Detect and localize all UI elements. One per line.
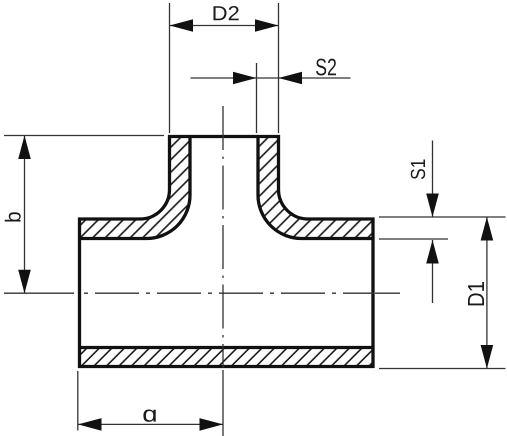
dimension S2 label <box>316 59 336 76</box>
outline: right pipe end face <box>371 218 374 369</box>
dimension S2 arrow left <box>233 72 257 85</box>
dimension D2 line <box>170 25 279 27</box>
dimension b arrow top <box>18 136 31 160</box>
dimension D2 label <box>214 6 239 20</box>
centerline: main pipe axis extension left <box>4 292 74 294</box>
outline: top-left wall inner bore contour with fillet <box>78 135 190 239</box>
outline: top-right wall outer contour with fillet <box>279 135 375 219</box>
outline: left pipe end face <box>78 218 81 369</box>
dimension D2 extension line right <box>278 3 280 133</box>
dimension S2 extension line <box>256 63 258 133</box>
dimension S1 label <box>411 160 426 180</box>
dimension D2 extension line left <box>169 3 171 133</box>
dimension a extension line left <box>77 371 79 431</box>
dimension a label <box>143 410 155 422</box>
dimension S1 extension line bottom <box>379 238 448 240</box>
centerline: branch axis dash-dot <box>222 106 224 368</box>
dimension a line <box>78 423 223 425</box>
outline: branch top end face <box>168 135 280 138</box>
tee body top-right wall section (hatched) <box>257 135 375 240</box>
dimension D1 arrow up <box>481 217 494 241</box>
dimension D2 arrow left <box>170 19 194 32</box>
tee body bottom wall section (hatched) <box>78 346 375 368</box>
dimension b extension line top <box>4 135 164 137</box>
centerline: branch axis extension below <box>222 370 224 436</box>
dimension D1 arrow down <box>481 345 494 369</box>
dimension S2 arrow right <box>279 72 303 85</box>
dimension S1 line lower <box>432 240 434 303</box>
tee body top-left wall section (hatched) <box>78 135 192 240</box>
dimension D1 line <box>486 217 488 369</box>
centerline: main pipe axis dash-dot <box>84 292 374 294</box>
dimension S1/D1 shared extension line top <box>379 216 506 218</box>
dimension S1 arrow down <box>426 194 439 218</box>
dimension D2 arrow right <box>255 19 279 32</box>
outline: bottom wall inner bore line <box>78 346 375 349</box>
dimension b arrow bottom <box>18 270 31 294</box>
dimension a arrow left <box>78 418 102 431</box>
outline: top-left wall outer contour with fillet <box>78 135 170 219</box>
dimension b label <box>5 212 21 221</box>
dimension b line <box>24 136 26 294</box>
outline: top-right wall inner bore contour with fillet <box>258 135 375 239</box>
dimension a arrow right <box>200 418 224 431</box>
dimension D1 extension line bottom <box>379 368 506 370</box>
dimension S1 arrow up <box>426 240 439 264</box>
dimension S2 line <box>191 77 351 79</box>
centerline: main pipe axis extension right <box>375 292 400 294</box>
outline: bottom wall outer line <box>78 365 375 368</box>
dimension D1 label <box>468 282 484 305</box>
dimension S1 line upper <box>432 141 434 218</box>
